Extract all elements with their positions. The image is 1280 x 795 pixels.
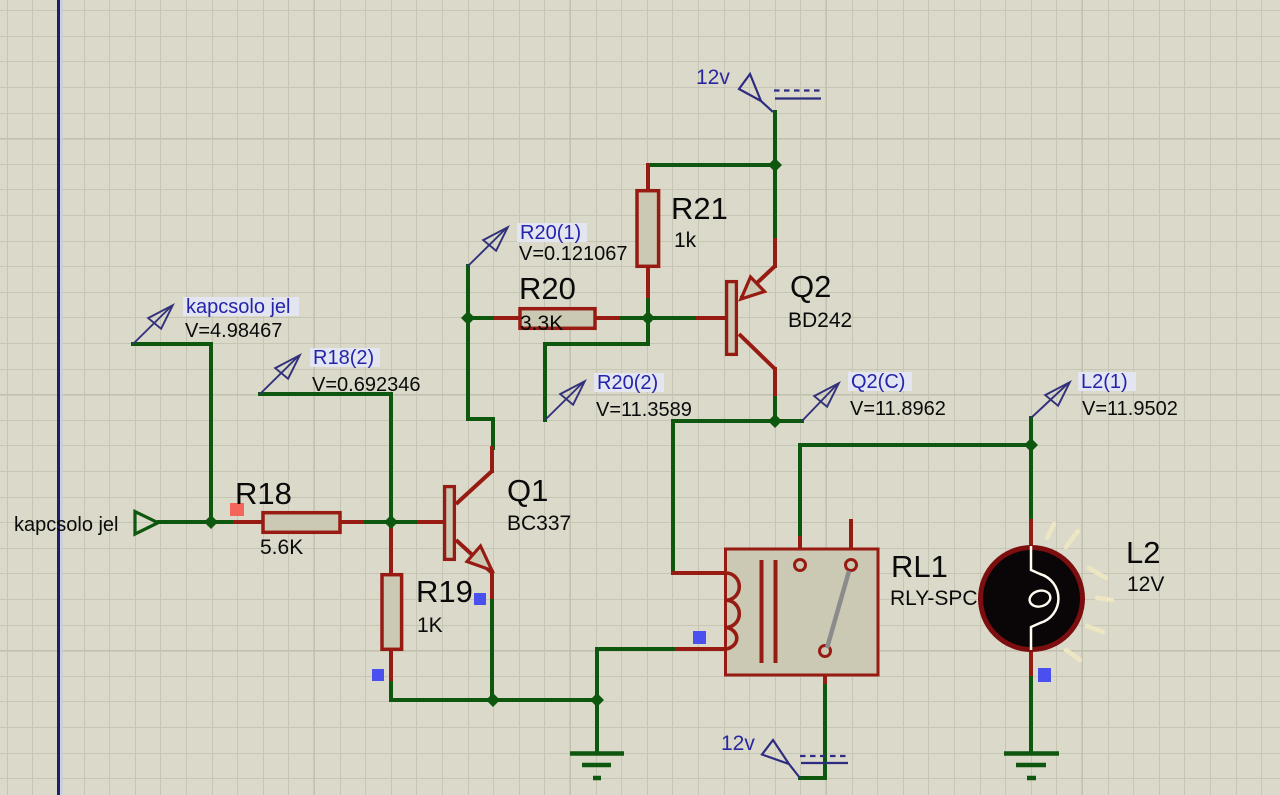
- wire kapcsolo jel probe tap: [133, 344, 211, 522]
- wire node Q2(C) to probe stub: [775, 419, 802, 423]
- svg-text:Q2: Q2: [790, 269, 831, 304]
- transistor Q1 base bar: [445, 487, 455, 560]
- svg-text:R18: R18: [235, 476, 292, 511]
- transistor Q2 emitter arrow (pnp, points to base): [741, 277, 765, 299]
- wire Q1 emitter to ground rail: [490, 601, 494, 700]
- relay RL1 NO contact pin circle: [795, 560, 806, 571]
- wire R19 bottom to ground rail: [391, 683, 493, 700]
- wire R20 left node down to Q1 collector: [468, 318, 493, 448]
- wire R19 bottom pin stub: [389, 651, 393, 683]
- transistor Q2 collector line: [739, 334, 775, 369]
- relay RL1 core bars: [760, 560, 764, 663]
- wire R20 left node to resistor: [468, 316, 495, 320]
- relay RL1 body: [726, 549, 879, 675]
- wire Q2 collector to node Q2(C): [773, 398, 777, 421]
- wire lamp bottom pin stub: [1029, 650, 1033, 678]
- wire Q2 emitter pin stub: [773, 240, 777, 266]
- handle red square near R18: [230, 503, 244, 516]
- wire R18 right to base node: [366, 520, 391, 524]
- svg-text:V=11.9502: V=11.9502: [1082, 398, 1178, 420]
- svg-text:1k: 1k: [674, 229, 697, 252]
- junction Q1 emitter / ground rail: [486, 693, 500, 707]
- lamp L2 filament: [1031, 546, 1058, 650]
- wire relay NO contact up to lamp rail: [798, 445, 802, 538]
- svg-text:BC337: BC337: [507, 512, 571, 535]
- svg-text:RL1: RL1: [891, 549, 948, 584]
- wire R20 left pin stub: [495, 316, 518, 320]
- svg-text:R20: R20: [519, 271, 576, 306]
- wire R20 right pin stub: [597, 316, 618, 320]
- wire relay coil bottom to ground rail: [597, 649, 673, 700]
- wire base node down to R20(2) probe tap: [545, 318, 648, 420]
- junction input terminal node: [204, 515, 218, 529]
- svg-text:12v: 12v: [721, 732, 755, 755]
- power terminal 12v top: [739, 74, 822, 112]
- handle blue square near R19 label: [474, 593, 486, 605]
- svg-text:Q2(C): Q2(C): [851, 371, 905, 393]
- wire relay coil bottom pin stub: [673, 647, 724, 651]
- transistor Q1 emitter line: [456, 540, 491, 572]
- svg-text:1K: 1K: [417, 614, 443, 637]
- wire R21 top pin stub: [646, 165, 650, 189]
- wire R18 right pin stub: [342, 520, 366, 524]
- handle blue square near R19 bottom: [372, 669, 384, 681]
- svg-text:R21: R21: [671, 191, 728, 226]
- svg-text:12v: 12v: [696, 66, 730, 89]
- svg-text:V=11.8962: V=11.8962: [850, 398, 946, 420]
- wire ground rail: [391, 698, 597, 702]
- probe label R20(1): [517, 223, 587, 242]
- probe label kapcsolo jel: [183, 297, 299, 316]
- svg-text:BD242: BD242: [788, 309, 852, 332]
- handle blue square near relay coil: [693, 631, 706, 644]
- svg-text:V=4.98467: V=4.98467: [185, 320, 282, 342]
- wire relay NO pin stub: [798, 538, 802, 560]
- wire base node to Q2 base: [648, 316, 698, 320]
- wire lamp top pin stub: [1029, 521, 1033, 548]
- svg-text:5.6K: 5.6K: [260, 536, 303, 559]
- junction at 12v rail / R21 / Q2 emitter: [768, 158, 782, 172]
- svg-text:V=11.3589: V=11.3589: [596, 399, 692, 421]
- sheet border: [57, 0, 60, 795]
- probe label R18(2): [310, 348, 380, 367]
- wire R21 bottom pin stub: [646, 268, 650, 300]
- wire R18(2) probe tap: [260, 394, 391, 522]
- wire relay common pin stub: [823, 656, 827, 686]
- resistor R19: [382, 575, 402, 650]
- svg-text:3.3K: 3.3K: [520, 312, 563, 335]
- wire lamp bottom to ground: [1029, 678, 1033, 752]
- relay RL1 coil: [726, 573, 739, 649]
- ground symbol below lamp L2: [1004, 754, 1059, 779]
- transistor Q2 emitter line: [741, 266, 775, 298]
- transistor Q1 emitter arrow: [467, 546, 492, 571]
- wire node to R21 top: [648, 163, 775, 167]
- wire ground stem: [595, 700, 599, 752]
- svg-text:V=0.692346: V=0.692346: [312, 374, 420, 396]
- junction ground rail / relay coil return: [590, 693, 604, 707]
- wire base node down to R19: [389, 522, 393, 530]
- voltage probe R20(2): [545, 381, 585, 420]
- transistor Q1 collector line: [456, 471, 492, 504]
- resistor R21: [637, 191, 659, 267]
- svg-text:R20(1): R20(1): [520, 222, 581, 244]
- junction R20 left / Q1 collector / probe: [461, 311, 475, 325]
- svg-text:Q1: Q1: [507, 473, 548, 508]
- wire R21 bottom to base node: [646, 300, 650, 318]
- voltage probe L2(1): [1031, 382, 1070, 418]
- input terminal kapcsolo jel: [135, 512, 158, 535]
- wire Q1 base pin stub: [419, 520, 443, 524]
- wire Q2 collector pin stub: [773, 369, 777, 398]
- voltage probe Q2(C): [802, 383, 839, 421]
- probe label Q2(C): [848, 372, 912, 391]
- svg-text:R19: R19: [416, 574, 473, 609]
- wire R18 left pin stub: [235, 520, 261, 524]
- wire node down to Q2 emitter: [773, 165, 777, 240]
- probe label R20(2): [594, 373, 664, 392]
- wire relay coil top pin stub: [673, 571, 724, 575]
- wire lamp rail horizontal: [800, 443, 1031, 447]
- wire R20(1) probe tap down to R20 left node: [466, 266, 470, 318]
- ground symbol below Q1/R19 rail: [570, 754, 624, 779]
- wire input terminal to node: [159, 520, 211, 524]
- svg-text:12V: 12V: [1127, 573, 1164, 596]
- junction node Q2(C): [768, 414, 782, 428]
- probe label L2(1): [1078, 372, 1136, 391]
- svg-text:R20(2): R20(2): [597, 372, 658, 394]
- relay RL1 switch lever: [827, 571, 849, 648]
- wire relay NC pin stub: [849, 521, 853, 560]
- power terminal 12v bottom: [762, 740, 848, 778]
- voltage probe R20(1): [468, 227, 508, 266]
- wire 12v top rail down to node: [773, 112, 777, 165]
- wire R19 top pin stub: [389, 530, 393, 573]
- junction R20 right / R21 / Q2 base: [641, 311, 655, 325]
- svg-text:L2(1): L2(1): [1081, 371, 1128, 393]
- svg-text:kapcsolo jel: kapcsolo jel: [186, 296, 291, 318]
- relay RL1 common pin circle: [820, 646, 831, 657]
- lamp L2 body: [981, 548, 1083, 650]
- svg-text:V=0.121067: V=0.121067: [519, 243, 627, 265]
- wire Q1 emitter pin stub: [490, 572, 494, 601]
- wire node to R18 left: [211, 520, 235, 524]
- junction R18 right / R19 / Q1 base: [384, 515, 398, 529]
- wire relay common to 12v bottom terminal: [800, 686, 825, 778]
- transistor Q2 base bar: [727, 282, 737, 355]
- wire node to lamp top: [1029, 445, 1033, 521]
- wire Q1 collector pin stub: [490, 448, 494, 471]
- svg-text:R18(2): R18(2): [313, 347, 374, 369]
- voltage probe kapcsolo jel: [133, 305, 173, 344]
- wire Q2 base pin stub: [698, 316, 725, 320]
- svg-text:kapcsolo jel: kapcsolo jel: [14, 514, 119, 536]
- wire R20 right to base node: [618, 316, 648, 320]
- wire base node to Q1 base: [391, 520, 419, 524]
- relay RL1 NC contact pin circle: [846, 560, 857, 571]
- wire L2(1) probe stub: [1029, 418, 1033, 445]
- handle blue square below lamp: [1038, 668, 1051, 682]
- resistor R18: [263, 513, 340, 533]
- lamp L2 light rays: [1047, 524, 1112, 660]
- svg-text:L2: L2: [1126, 535, 1160, 570]
- wire node Q2(C) to relay coil top: [673, 421, 775, 573]
- junction lamp rail / L2: [1024, 438, 1038, 452]
- voltage probe R18(2): [260, 355, 300, 394]
- resistor R20: [520, 309, 595, 329]
